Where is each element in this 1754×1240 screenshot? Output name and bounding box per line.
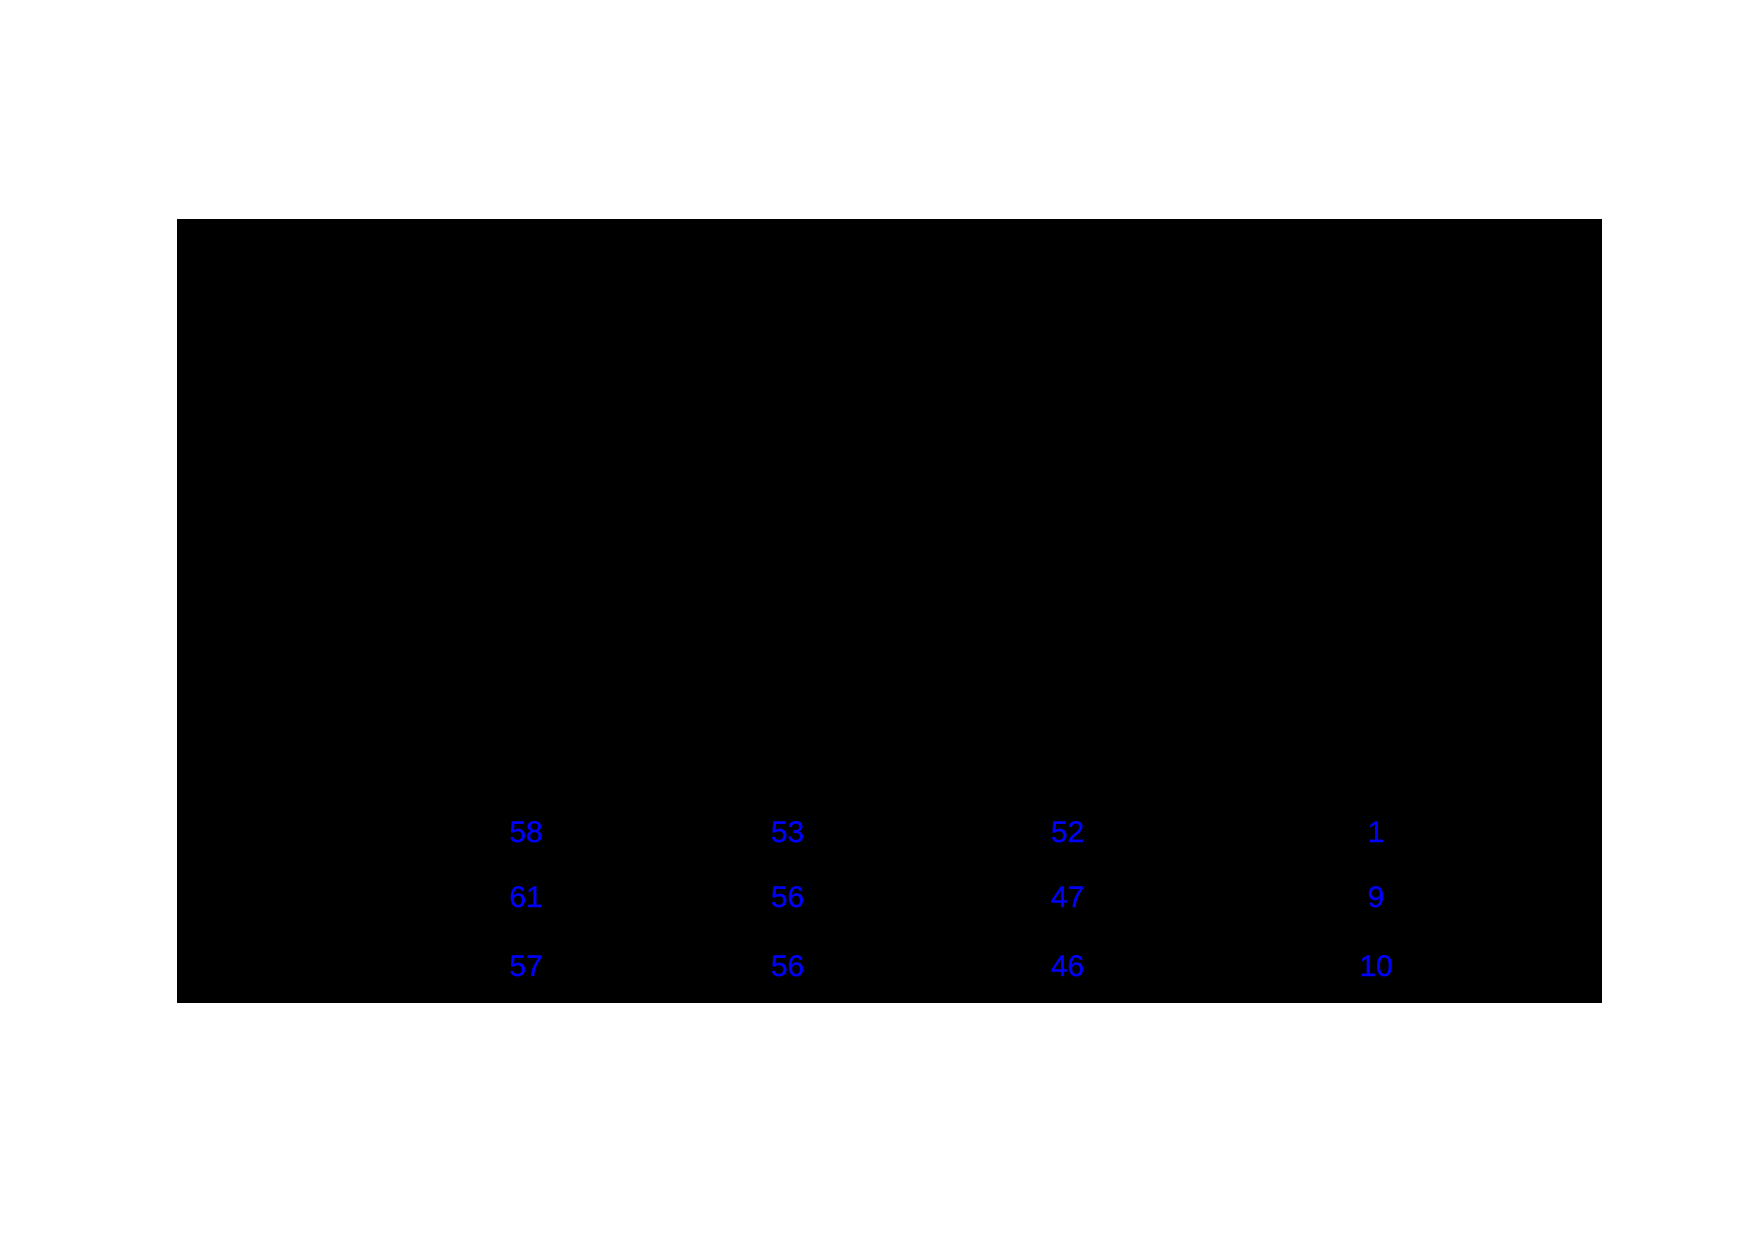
value 10 (row 3, col 4) — [1359, 966, 1392, 968]
value 53 (row 1, col 2) — [771, 832, 804, 834]
value 52 (row 1, col 3) — [1051, 832, 1084, 834]
value 56 (row 3, col 2) — [771, 966, 804, 968]
value 56 (row 2, col 2) — [771, 897, 804, 899]
value 61 (row 2, col 1) — [509, 897, 542, 899]
value 58 (row 1, col 1) — [509, 832, 542, 834]
value 9 (row 2, col 4) — [1368, 897, 1385, 899]
value 1 (row 1, col 4) — [1368, 832, 1385, 834]
value 57 (row 3, col 1) — [509, 966, 542, 968]
figure background (black axes/figure area) — [177, 219, 1602, 1003]
value 47 (row 2, col 3) — [1051, 897, 1084, 899]
value 46 (row 3, col 3) — [1051, 966, 1084, 968]
